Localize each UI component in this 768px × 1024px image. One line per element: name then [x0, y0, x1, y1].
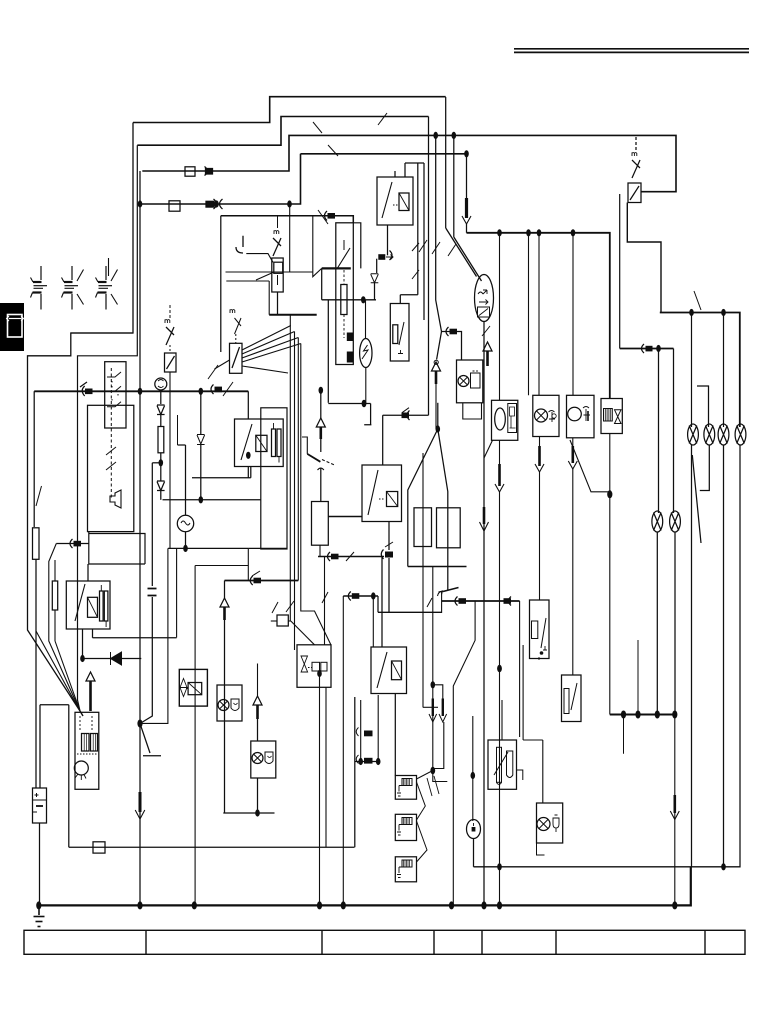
- bus h601: [442, 600, 520, 602]
- wire h565: [195, 565, 248, 567]
- wire h638: [93, 637, 177, 639]
- twin down arrows: [433, 699, 443, 717]
- wire: [453, 136, 455, 237]
- verticals from staircase: [429, 97, 469, 415]
- feed cluster: [430, 767, 435, 775]
- wire main left feeder v141: [139, 171, 141, 724]
- plug 1: [395, 776, 416, 800]
- resistor R-a: [158, 427, 164, 453]
- slashes on bundle: [419, 240, 456, 256]
- fan wires from IG: [242, 326, 291, 351]
- mid lamps row ⊗ x2: [652, 349, 681, 715]
- footer table: [24, 930, 745, 954]
- bottom connector lead: [388, 522, 390, 551]
- lamp HL4: [735, 424, 746, 445]
- wire h415: [383, 414, 429, 416]
- m-switch above ignition: [230, 309, 235, 313]
- feed from fuse line: [394, 171, 396, 177]
- wire v167.9 to dot: [140, 548, 168, 723]
- horn box: [88, 405, 134, 531]
- wire: [674, 532, 676, 715]
- slash: [412, 243, 419, 279]
- ignition switch body IG: [230, 343, 243, 373]
- U loop below: [463, 403, 482, 419]
- box ignition upper: [105, 362, 126, 428]
- wire: [445, 97, 447, 228]
- fan point to starter box: [80, 711, 83, 716]
- relay box K3: [179, 669, 207, 706]
- wire: [673, 349, 675, 514]
- fuse on h621: [271, 620, 277, 622]
- connector X3: [96, 258, 118, 310]
- headlamps row ⊗ x4: [688, 386, 746, 868]
- plug 2: [395, 814, 416, 840]
- wire staircase top-left: [133, 97, 676, 204]
- connector X1: [31, 266, 48, 310]
- wire from L2 down to 355: [78, 145, 138, 711]
- box LB2: [251, 741, 276, 778]
- lamp HL3: [718, 424, 729, 445]
- slash: [318, 210, 328, 224]
- box: [297, 645, 331, 688]
- node: [137, 720, 142, 728]
- contacts inside: [107, 372, 121, 407]
- wire F2 bottom: [277, 292, 279, 315]
- bottom lead: [483, 322, 485, 906]
- connector cluster: [361, 695, 379, 762]
- fuse F-batt: [33, 528, 40, 560]
- gauge fuel: [492, 400, 518, 440]
- fuse F-starter: [54, 560, 56, 581]
- title rule: [514, 49, 749, 53]
- box LB1: [217, 685, 242, 721]
- up arrow: [432, 362, 441, 371]
- wire h867: [474, 866, 740, 868]
- wire: [658, 349, 660, 514]
- contact T: [236, 236, 243, 253]
- leads below: [432, 567, 434, 771]
- lamp ML2: [670, 511, 681, 532]
- diode on v200: [200, 391, 202, 434]
- battery B1: [33, 788, 47, 905]
- dashed actuator line: [110, 368, 112, 500]
- wire below horn box: [89, 532, 145, 565]
- bus y348: [620, 344, 674, 353]
- wire gauge feeders: [499, 233, 501, 400]
- wire: [436, 136, 442, 332]
- connector symbols top-left x3: [31, 258, 118, 310]
- wire fuse to battery: [35, 559, 37, 788]
- wire h391 bold: [34, 390, 248, 392]
- wire h477: [192, 467, 251, 478]
- wire: [656, 532, 658, 715]
- lead from h556: [324, 557, 326, 645]
- arrow on v224: [224, 581, 226, 599]
- cable diagonals: [446, 228, 477, 277]
- fuse F-a on line y171: [185, 167, 213, 177]
- wire stub T-bar: [140, 724, 161, 756]
- top jogs: [405, 163, 424, 177]
- capacitor C1: [151, 463, 153, 586]
- wire L3: [142, 135, 676, 191]
- wire slashes on staircase: [313, 113, 387, 156]
- wire h333: [71, 332, 133, 334]
- up arrow: [483, 342, 492, 351]
- slash: [482, 326, 490, 336]
- diode D-b: [157, 481, 165, 491]
- leads below: [319, 674, 321, 906]
- diode D-c: [371, 274, 379, 283]
- node dots on L3: [433, 132, 468, 158]
- horn glyph: [110, 490, 121, 508]
- gauge temp/oil: [533, 395, 559, 436]
- wire hook to HL2: [697, 386, 709, 427]
- wire h402: [328, 403, 370, 405]
- bottom bus: [408, 566, 467, 568]
- top-right E switch M1: [620, 137, 661, 349]
- connector left: [56, 543, 89, 545]
- wire h215: [221, 216, 353, 223]
- contact marks: [106, 447, 116, 470]
- ground bus bottom: [36, 868, 691, 910]
- wire v220: [220, 216, 222, 352]
- gauge coolant: [567, 395, 595, 438]
- down arrow on 484: [483, 507, 486, 524]
- wire long diagonal center: [453, 601, 475, 905]
- wire L4: [301, 153, 467, 155]
- E/m switch F2: [274, 230, 279, 234]
- wire L1: [133, 97, 446, 123]
- fan diagonals: [36, 631, 80, 711]
- wire h658 with diode: [83, 658, 142, 660]
- wire L2: [137, 117, 428, 146]
- plug 3: [395, 857, 416, 882]
- wire box1 diag lead: [484, 440, 493, 458]
- connector X2: [62, 266, 84, 310]
- wire box bottom to relay: [87, 564, 89, 581]
- wire v141 to ground: [139, 724, 141, 906]
- relay RL (main relay): [66, 581, 110, 629]
- wire v195: [194, 566, 196, 906]
- fuse F-b on line y204: [169, 199, 292, 211]
- bottom lead with connector: [387, 225, 389, 255]
- slash: [36, 486, 42, 506]
- wire left of starter: [40, 705, 69, 788]
- lead below LB2: [257, 778, 259, 813]
- wire h500: [163, 499, 261, 501]
- lamp HL1: [688, 424, 699, 445]
- boxes: [414, 508, 432, 547]
- lamp HL2: [704, 424, 715, 445]
- harness down-arrow: [139, 792, 142, 812]
- ground symbol: [34, 905, 45, 926]
- leads below: [394, 694, 396, 776]
- wire v34 down to fuse: [33, 391, 35, 527]
- wire from L1 down-step: [28, 123, 134, 712]
- wire h548: [168, 547, 248, 549]
- connector on h391: [80, 382, 87, 396]
- diode D-a: [157, 405, 165, 415]
- gauge hourmeter: [601, 399, 622, 434]
- starter box SM: [75, 712, 99, 789]
- black square icon left edge: [0, 303, 24, 351]
- wire h847: [69, 846, 355, 848]
- diagonal lead from coolant gauge: [570, 440, 610, 492]
- lamp bus top right: [660, 291, 740, 427]
- chain wires: [417, 782, 428, 862]
- lead above LB2: [257, 664, 259, 697]
- wire relay bottom: [82, 629, 84, 659]
- up arrow: [86, 672, 95, 681]
- wire: [428, 117, 430, 416]
- switch T: [443, 588, 459, 592]
- wire L5 feeder: [140, 154, 301, 204]
- leads below gauges with arrows: [499, 440, 501, 464]
- lamp ML1: [652, 511, 663, 532]
- wire v178: [176, 548, 178, 637]
- wire v168 from em-switch: [169, 372, 171, 548]
- wire below lamps: [691, 445, 693, 868]
- bundle verticals: [289, 352, 291, 621]
